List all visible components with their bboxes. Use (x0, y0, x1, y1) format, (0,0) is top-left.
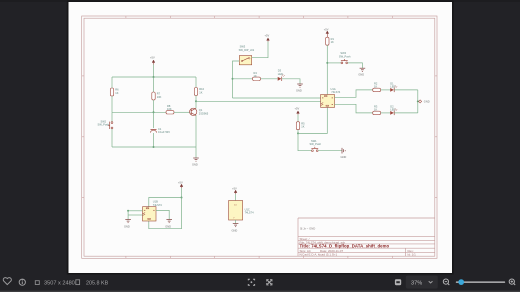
svg-text:SW_DIP_x01: SW_DIP_x01 (239, 48, 255, 52)
wire inputs to GND (127, 211, 129, 220)
svg-text:1K: 1K (254, 74, 257, 78)
wire Qbar out (335, 104, 373, 113)
wire R10 to collector node (195, 96, 197, 109)
wire top rail (112, 76, 196, 78)
wire +5V to R5 (297, 115, 299, 122)
wire U1B CLR loop (149, 198, 182, 229)
titleblock kicad text (300, 252, 338, 256)
junction mid rail (153, 111, 155, 113)
wire SW4 to GND (348, 63, 363, 68)
svg-text:GND: GND (232, 228, 238, 232)
svg-text:1K: 1K (374, 108, 377, 112)
svg-text:10K: 10K (167, 107, 172, 111)
titleblock sheet text (300, 237, 310, 241)
toolbar arrows icon (267, 280, 272, 286)
ground GND U1C (232, 224, 239, 233)
wire R10 top (195, 77, 197, 88)
LED D2 (390, 104, 397, 115)
power +5V PWR01 (150, 56, 155, 65)
ground GND Q1 (192, 158, 199, 166)
wire R7 bottom (153, 100, 155, 112)
svg-text:2SD965: 2SD965 (199, 111, 209, 115)
switch SW4 SW_Push (339, 51, 351, 64)
toolbar info icon (19, 279, 25, 285)
wire bottom rail (112, 146, 196, 148)
wire to GND Q1 (195, 147, 197, 158)
svg-text:GND: GND (424, 100, 430, 104)
resistor R5 (296, 121, 305, 129)
svg-text:+5V: +5V (324, 28, 329, 32)
titleblock title text (300, 244, 390, 249)
svg-text:LED: LED (390, 85, 395, 89)
op-amp U1B 74LS74 flip-flop (143, 200, 163, 221)
wire D1 right (394, 89, 418, 91)
wire R5 to node (297, 130, 299, 134)
wire R2 to D1 (381, 89, 390, 91)
wire R6 top (111, 77, 113, 88)
toolbar dimensions icon (35, 281, 39, 285)
svg-text:LED: LED (278, 72, 283, 76)
wire node to SW4 (327, 62, 341, 64)
resistor R8 (166, 104, 174, 114)
resistor R10 (194, 87, 204, 95)
wire D2 right (394, 112, 418, 114)
wire SW2 bottom (111, 129, 113, 147)
wire C1 bottom (153, 133, 155, 147)
svg-text:SW_Push: SW_Push (339, 54, 351, 58)
wire node to U1A CLR (298, 107, 327, 133)
wire R1 to U1A PRE (326, 45, 328, 94)
svg-text:74LS74: 74LS74 (245, 211, 255, 215)
wire +5V down U1B (181, 188, 183, 198)
titleblock id text (408, 252, 417, 256)
svg-text:GND: GND (341, 155, 347, 159)
wire R8 to base (174, 111, 190, 113)
toolbar heart icon (3, 278, 11, 285)
ground GND SW4 (358, 68, 365, 76)
titleblock file text (300, 241, 346, 245)
note text 0]Jx~GND (300, 226, 315, 230)
toolbar focus icon (248, 279, 254, 285)
op-amp U1C 74LS74 power unit (229, 201, 255, 221)
wire U1B Q out (156, 210, 169, 219)
wire SW2 top stub (111, 112, 113, 121)
LED D1 (390, 81, 397, 92)
resistor R3 (373, 104, 381, 114)
wire Q out (335, 90, 373, 97)
wire DATA to U1A (233, 97, 321, 99)
titleblock size date text (300, 249, 344, 253)
junction R5 node (297, 132, 299, 134)
titleblock rev text (408, 249, 414, 253)
toolbar zoom slider track (457, 281, 505, 283)
wire C1 top (153, 112, 155, 128)
wire node down to SW1 (298, 133, 312, 150)
power +5V R5 (295, 107, 300, 115)
resistor R2 (373, 81, 381, 91)
junction GND tap (417, 100, 419, 102)
svg-text:1K: 1K (331, 40, 334, 44)
wire U1B D input (128, 210, 142, 212)
wire U1B CLK input (128, 214, 142, 216)
resistor R7 (152, 92, 162, 100)
wire R3 to D2 (381, 112, 390, 114)
toolbar filesize icon (76, 280, 80, 285)
junction SW3 node (232, 78, 234, 80)
wire mid rail (112, 111, 166, 113)
svg-text:+5V: +5V (232, 186, 237, 190)
toolbar dimensions text (44, 280, 75, 286)
wire SW3 right to +5V (252, 42, 268, 58)
resistor R6 (110, 88, 119, 96)
wire CLK long (196, 100, 321, 102)
svg-text:+5V: +5V (265, 34, 270, 38)
power +5V U1C (232, 186, 237, 194)
ground GND U1B inputs (124, 220, 131, 229)
toolbar zoom dropdown (406, 276, 438, 289)
svg-text:Id: 1/1: Id: 1/1 (408, 252, 417, 256)
toolbar zoom slider thumb (458, 279, 464, 285)
sheet frame inner (84, 18, 435, 256)
junction bottom rail (153, 146, 155, 148)
svg-text:1K: 1K (374, 85, 377, 89)
LED D3 (278, 69, 285, 81)
switch SW3 SW_DIP_x01 (239, 45, 255, 65)
junction U1B node (181, 197, 183, 199)
frame column ticks (126, 16, 392, 258)
svg-text:GND: GND (165, 224, 171, 228)
sheet frame outer (82, 16, 437, 258)
wire R4 to D3 (261, 78, 278, 80)
switch SW2 SW_Push (98, 119, 113, 129)
frame row ticks (82, 76, 437, 198)
toolbar filesize text (86, 280, 109, 286)
svg-text:37%: 37% (411, 280, 422, 286)
op-amp U1A 74LS74 flip-flop (321, 87, 341, 107)
svg-text:0] Jx ~ GND: 0] Jx ~ GND (300, 226, 315, 230)
svg-text:1K: 1K (301, 125, 304, 129)
svg-text:3507 x 2480: 3507 x 2480 (44, 280, 75, 286)
junction U1B inputs (127, 210, 129, 212)
switch SW1 SW_Push (310, 139, 322, 152)
ground GND LEDs (419, 100, 430, 104)
wire SW1 to GND (318, 150, 342, 152)
svg-text:+5V: +5V (150, 56, 155, 60)
ground GND U1B Q (165, 220, 172, 229)
junction SW4 node (326, 62, 328, 64)
svg-text:GND: GND (296, 88, 302, 92)
wire LED return vertical (417, 90, 419, 113)
svg-text:205.8 KB: 205.8 KB (86, 280, 109, 286)
resistor R1 (326, 37, 335, 45)
svg-text:+5V: +5V (295, 107, 300, 111)
svg-text:KiCad E.D.A. kicad (5.1.9)-1: KiCad E.D.A. kicad (5.1.9)-1 (300, 252, 338, 256)
svg-text:0.1uF 50V: 0.1uF 50V (158, 130, 170, 134)
svg-text:SW_Push: SW_Push (310, 142, 322, 146)
power +5V U1B (178, 180, 183, 188)
svg-text:1K: 1K (199, 90, 202, 94)
wire D3 to GND (282, 79, 300, 84)
svg-text:+5V: +5V (178, 180, 183, 184)
transistor Q1 (190, 108, 209, 115)
toolbar zoom-out icon (443, 279, 449, 285)
wire +5V to U1C (235, 194, 237, 201)
toolbar fit icon (395, 279, 401, 285)
title block (298, 218, 435, 256)
toolbar zoom-in icon (509, 279, 515, 285)
svg-text:1K: 1K (115, 91, 118, 95)
wire +5V stub (153, 65, 155, 78)
svg-text:Title: 74LS74_D_flipflop_DATA_: Title: 74LS74_D_flipflop_DATA_shift_demo (300, 244, 390, 249)
capacitor C1 (151, 127, 171, 134)
svg-text:GND: GND (192, 162, 198, 166)
resistor R4 (253, 71, 261, 80)
svg-text:74LS74: 74LS74 (153, 203, 163, 207)
wire D3 rail left (233, 78, 253, 80)
svg-text:10K: 10K (157, 95, 162, 99)
power +5V SW3 (265, 34, 270, 42)
ground GND D3 (296, 84, 303, 92)
wire U1B PRE (149, 198, 182, 207)
wire SW3 left down (233, 61, 240, 98)
wire R6 bottom (111, 96, 113, 112)
svg-text:74LS74: 74LS74 (331, 90, 341, 94)
svg-text:SW_Push: SW_Push (98, 123, 110, 127)
svg-text:GND: GND (124, 224, 130, 228)
schematic page (67, 1, 454, 275)
wire R7 top (153, 77, 155, 92)
svg-text:GND: GND (358, 73, 364, 77)
svg-text:LED: LED (390, 108, 395, 112)
junction collector node (195, 100, 197, 102)
power +5V R1 (324, 28, 329, 38)
ground GND SW1 (341, 148, 347, 159)
wire U1C to GND (235, 220, 237, 224)
junction top rail (153, 76, 155, 78)
wire emitter down (195, 115, 197, 147)
